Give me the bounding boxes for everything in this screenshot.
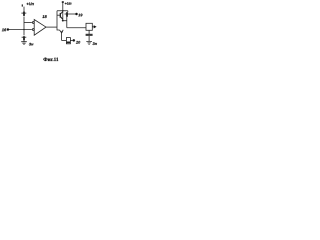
wire R3 to output corner: [66, 17, 68, 28]
wire left rail top tick: [22, 4, 23, 6]
transistor Q1 emitter arrow: [61, 18, 63, 20]
wire left rail middle segment: [23, 17, 25, 36]
node terminal dot upper: [75, 13, 77, 15]
load box Z1: [86, 23, 92, 30]
node +Up left label: [27, 2, 34, 5]
wire left rail to ground: [23, 40, 25, 42]
wire tap to inverting input: [24, 22, 32, 24]
transistor Q1 collector: [60, 12, 63, 15]
junction output node: [62, 20, 64, 22]
wire right rail top tick: [62, 1, 64, 3]
transistor Q2 lead left: [60, 30, 62, 33]
wire Q2 emitter down: [61, 33, 63, 41]
node +Up right label: [65, 2, 72, 5]
op-amp U1 input circle bottom: [32, 29, 34, 31]
wire top horizontal to rail: [57, 10, 68, 12]
wire right rail: [62, 2, 64, 20]
resistor R1: [23, 12, 25, 16]
wire corner into resistor R3: [67, 11, 69, 12]
resistor R4: [66, 38, 70, 44]
wire R3 tap to terminal: [65, 13, 76, 15]
op-amp U1 triangle: [34, 20, 46, 36]
transistor Q2 arrowhead: [60, 31, 63, 33]
wire load right: [92, 26, 94, 28]
ground right: [86, 41, 92, 44]
wire output node to descender: [63, 20, 67, 22]
wire cap to ground: [88, 36, 90, 41]
transistor Q2 lead right: [62, 30, 64, 33]
node ground label 3m: [29, 43, 33, 46]
node input terminal label: [2, 28, 6, 31]
resistor R2: [23, 36, 25, 40]
wire R4 to terminal: [71, 40, 73, 42]
wire emitter to resistor R4: [62, 40, 67, 42]
transistor Q1 base bar: [59, 13, 61, 18]
wire long output to load: [67, 27, 86, 29]
wire op-amp output: [46, 26, 57, 28]
node terminal label lower: [76, 41, 80, 44]
node input terminal dot: [7, 28, 9, 30]
junction rail/top wire: [62, 10, 63, 11]
op-amp U1 label: [42, 15, 46, 18]
node output arrow terminal: [94, 25, 97, 28]
capacitor C1 plates: [86, 33, 93, 35]
wire input horizontal: [9, 29, 32, 31]
caption Fig.11: [43, 58, 58, 61]
junction input/divider: [23, 29, 25, 31]
transistor Q1 base lead: [57, 14, 60, 16]
node terminal dot lower: [73, 39, 75, 41]
wire load bottom stub: [88, 30, 90, 34]
transistor Q2 base lead: [57, 27, 60, 30]
ground left: [21, 42, 27, 45]
node terminal label upper: [78, 14, 82, 17]
node ground right label: [92, 42, 96, 45]
op-amp U1 input circle top: [32, 22, 34, 24]
wire base line vertical: [56, 11, 58, 27]
transistor Q1 emitter: [60, 16, 63, 19]
resistor R3: [66, 12, 68, 17]
wire left rail upper segment: [23, 7, 25, 12]
